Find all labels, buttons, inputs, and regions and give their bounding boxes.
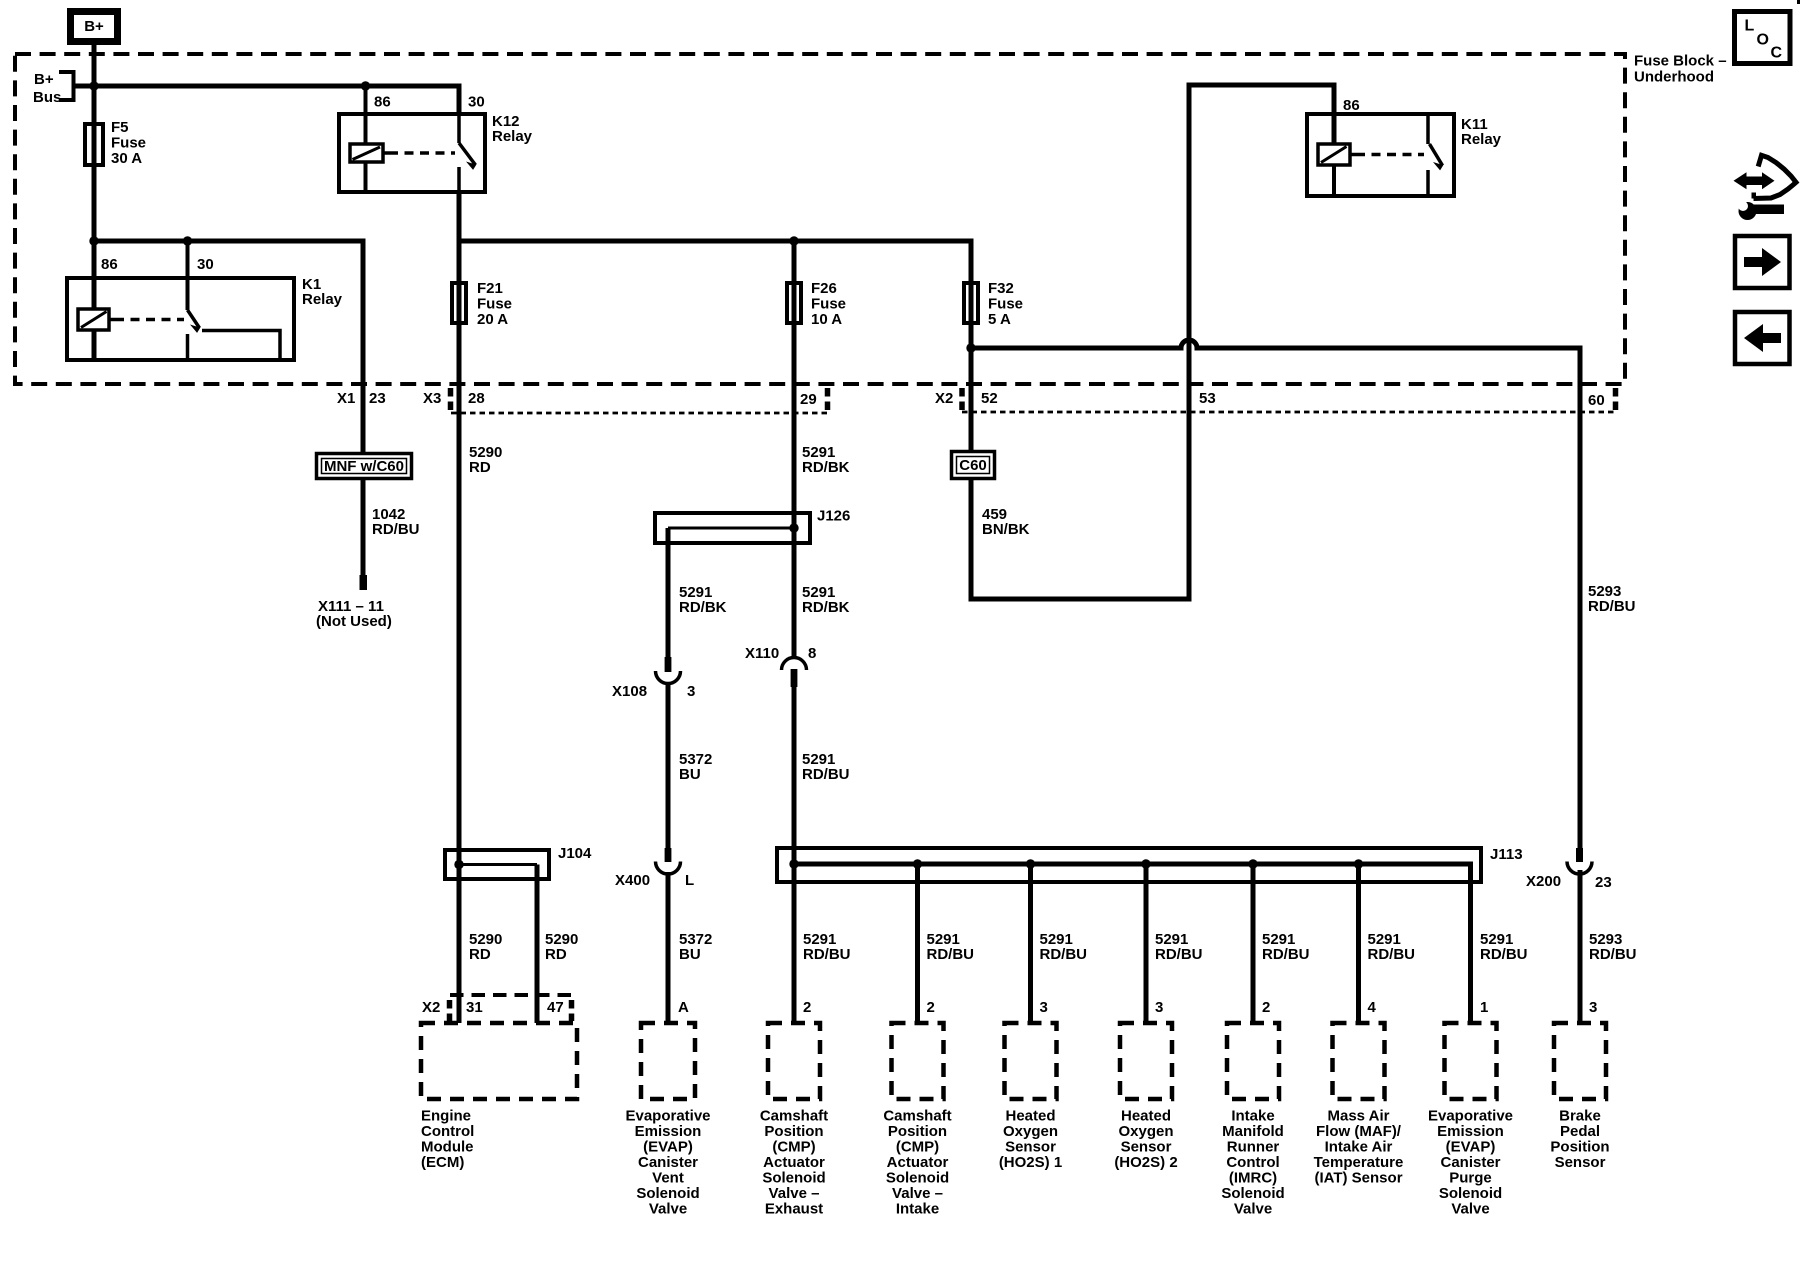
svg-text:F5: F5 [111,119,129,136]
inline connector X200 pin and cup [1567,848,1592,874]
svg-text:86: 86 [374,94,391,111]
svg-text:Solenoid: Solenoid [762,1170,825,1187]
node junction dot (94,241) [89,236,98,245]
label Fuse Block - Underhood [1634,53,1727,86]
relay K12 coil [350,144,389,162]
svg-text:Temperature: Temperature [1314,1154,1404,1171]
svg-text:Sensor: Sensor [1555,1154,1606,1171]
label K12 Relay [492,113,533,145]
inline connector X110 cap and pin [782,658,807,687]
icon pan/swap tool with wrench [1734,155,1797,220]
label connector X1 pin 23 [337,390,386,407]
svg-text:Emission: Emission [635,1123,702,1140]
wire K12 pin30 drop from box bottom to right bus y241 [457,192,462,241]
splice J126 box [655,513,810,543]
corner mark top right [1797,0,1800,4]
svg-text:O: O [1757,32,1769,49]
svg-text:RD/BU: RD/BU [1368,946,1416,963]
svg-text:Intake Air: Intake Air [1325,1139,1393,1156]
relay K1 box [67,278,294,360]
svg-text:Solenoid: Solenoid [636,1185,699,1202]
svg-text:Camshaft: Camshaft [760,1108,828,1125]
label EVAP vent pin A [678,999,689,1016]
relay K11 box [1307,114,1454,196]
wire circuit 459 BN/BK from F32 down through C60 right and up to K11 pin86 [971,85,1334,599]
svg-text:30: 30 [468,94,485,111]
svg-text:Sensor: Sensor [1005,1139,1056,1156]
wire J113 drop to CMP intake x917.5 [913,859,922,1023]
svg-text:Module: Module [421,1139,474,1156]
svg-text:86: 86 [1343,97,1360,114]
svg-text:X110: X110 [745,645,779,662]
svg-text:Heated: Heated [1121,1108,1171,1125]
svg-text:RD/BU: RD/BU [802,766,850,783]
svg-text:Flow (MAF)/: Flow (MAF)/ [1316,1123,1402,1140]
label K12 pin 86 [374,94,391,111]
svg-text:8: 8 [808,645,816,662]
label CMP exhaust pin 2 [803,999,811,1016]
component box HO2S 2 [1120,1023,1172,1099]
svg-text:Mass Air: Mass Air [1328,1108,1390,1125]
label Engine Control Module (ECM) [421,1108,474,1172]
label circuit 5293 RD/BU lower [1589,931,1637,963]
svg-text:Underhood: Underhood [1634,69,1714,86]
wire left bus y241 from F5 branch to X1 drop x363 [94,241,363,452]
svg-text:Valve –: Valve – [769,1185,820,1202]
svg-text:28: 28 [468,390,485,407]
svg-text:Valve: Valve [1234,1201,1272,1218]
wire circuit 5372 BU x668 from X108 to X400 [666,682,671,852]
terminal X111-11 stub [360,575,368,590]
svg-text:X3: X3 [423,390,441,407]
label circuit 5291 RD/BK right of J126 [802,584,850,616]
label MAF pin 4 [1368,999,1377,1016]
label splice J104 [558,845,592,862]
svg-text:F32: F32 [988,280,1014,297]
svg-text:B+: B+ [34,71,54,88]
svg-text:31: 31 [466,999,483,1016]
label circuit 5290 RD upper [469,444,502,476]
svg-text:5 A: 5 A [988,311,1011,328]
wire circuit 5372 BU x668 from X400 to EVAP vent valve [666,872,671,1023]
svg-text:RD: RD [545,946,567,963]
svg-text:52: 52 [981,390,998,407]
svg-text:Engine: Engine [421,1108,471,1125]
svg-text:(HO2S) 1: (HO2S) 1 [999,1154,1062,1171]
svg-text:L: L [1745,18,1755,35]
wire circuit 5291 RD/BU x794 from X110 pin to J113 and CMP exhaust [792,684,797,1023]
wire circuit 5293 y348 from F32 junction hopping over x1189 then down x1580 to X200 [971,340,1580,848]
component box CMP actuator solenoid valve exhaust [768,1023,820,1099]
label circuit 5293 RD/BU upper [1588,583,1636,615]
node J113 dot (794,864) [789,859,798,868]
label splice J126 [817,508,850,525]
connector X3 row thin dashed line [451,412,827,415]
label HO2S 1 [999,1108,1062,1172]
svg-text:3: 3 [1589,999,1597,1016]
label circuit 5291 RD/BK upper [802,444,850,476]
label K12 pin 30 [468,94,485,111]
svg-text:L: L [685,872,694,889]
svg-text:X1: X1 [337,390,355,407]
svg-text:1: 1 [1480,999,1488,1016]
relay K11 coil-switch dashed link [1356,153,1424,157]
label fuse F26 [811,280,846,328]
label connector X110 pin 8 [745,645,816,662]
wire K1 pin30 drop x187.5 [186,241,190,310]
label splice J113 [1490,846,1523,863]
svg-text:20 A: 20 A [477,311,508,328]
wire K11 coil lower stub x1334 [1332,162,1336,196]
label B+ terminal [84,18,104,35]
label brake pedal position sensor [1550,1108,1609,1172]
svg-text:Fuse: Fuse [811,296,846,313]
label K1 pin 86 [101,256,118,273]
splice J104 inner bus and junction dot [454,860,537,869]
svg-text:30 A: 30 A [111,150,142,167]
svg-text:Solenoid: Solenoid [1221,1185,1284,1202]
label MAF/IAT sensor [1314,1108,1404,1187]
relay K11 switch internals and blade [1428,114,1443,196]
connector X3 row separator dashes left [448,388,454,411]
svg-text:Control: Control [1226,1154,1279,1171]
component box MAF/IAT sensor [1333,1023,1385,1099]
svg-text:(EVAP): (EVAP) [1446,1139,1496,1156]
svg-text:(CMP): (CMP) [896,1139,939,1156]
svg-text:MNF w/C60: MNF w/C60 [324,458,404,475]
svg-text:Fuse Block –: Fuse Block – [1634,53,1727,70]
fuse block underhood dashed border [15,54,1625,384]
splice J104 box [445,850,549,879]
connector X2 row separator dashes left [959,388,965,411]
label CMP actuator solenoid valve intake [883,1108,951,1218]
svg-text:J126: J126 [817,508,850,525]
label CMP actuator solenoid valve exhaust [760,1108,828,1218]
svg-text:Position: Position [764,1123,823,1140]
label K11 pin 86 [1343,97,1360,114]
label C60 [959,457,987,474]
label fuse F21 [477,280,512,328]
label circuit 5291 RD/BU to HO2S2 [1155,931,1203,963]
svg-text:RD/BU: RD/BU [1262,946,1310,963]
node junction dot below F32 (971,348) [966,343,975,352]
svg-text:Control: Control [421,1123,474,1140]
label circuit 459 BN/BK [982,506,1030,538]
svg-text:Intake: Intake [1231,1108,1274,1125]
svg-text:Evaporative: Evaporative [625,1108,710,1125]
svg-text:Exhaust: Exhaust [765,1201,823,1218]
connector C60 box [952,452,995,479]
svg-text:Pedal: Pedal [1560,1123,1600,1140]
svg-text:3: 3 [1040,999,1048,1016]
label HO2S2 pin 3 [1155,999,1163,1016]
label fuse F32 [988,280,1023,328]
B+ terminal box [71,12,118,42]
svg-text:BN/BK: BN/BK [982,521,1030,538]
label HO2S1 pin 3 [1040,999,1048,1016]
relay K12 box [339,114,485,192]
label circuit 5291 RD/BU to EVAP purge [1480,931,1528,963]
icon forward arrow box [1735,236,1790,288]
relay K12 coil-switch dashed link [389,151,455,155]
wire J104 output 5290 RD x537 to ECM pin47 [535,865,540,1024]
label K1 pin 30 [197,256,214,273]
svg-text:Canister: Canister [638,1154,698,1171]
svg-text:RD/BK: RD/BK [679,599,727,616]
relay K1 switch blade and contact [188,310,281,358]
label circuit 5291 RD/BU to CMP exhaust [803,931,851,963]
component box IMRC solenoid valve [1227,1023,1279,1099]
svg-text:Runner: Runner [1227,1139,1280,1156]
label EVAP canister purge solenoid valve [1428,1108,1513,1218]
svg-text:RD/BU: RD/BU [1040,946,1088,963]
label circuit 5291 RD/BU to IMRC [1262,931,1310,963]
label circuit 5290 RD to ECM 31 [469,931,502,963]
svg-text:10 A: 10 A [811,311,842,328]
svg-text:Canister: Canister [1440,1154,1500,1171]
svg-text:F26: F26 [811,280,837,297]
wire J113 drop to MAF/IAT x1358.5 [1354,859,1363,1023]
svg-text:RD/BU: RD/BU [372,521,420,538]
svg-text:2: 2 [927,999,935,1016]
svg-text:A: A [678,999,689,1016]
svg-text:Fuse: Fuse [477,296,512,313]
svg-text:Sensor: Sensor [1121,1139,1172,1156]
svg-text:Position: Position [888,1123,947,1140]
svg-text:BU: BU [679,946,701,963]
svg-text:Oxygen: Oxygen [1003,1123,1058,1140]
svg-text:Bus: Bus [33,89,61,106]
label connector X2 pins 52 53 60 [935,390,1605,409]
svg-text:Purge: Purge [1449,1170,1492,1187]
wire circuit 5293 RD/BU x1580 from X200 to brake pedal position sensor [1578,870,1583,1023]
svg-text:(IAT) Sensor: (IAT) Sensor [1314,1170,1402,1187]
wire F21 branch x459 from right bus down through F21, J104 to ECM pin31 [457,241,462,1023]
component box EVAP canister vent solenoid valve [641,1023,695,1099]
relay K1 coil-switch dashed link [115,318,184,322]
connector X3 row separator dashes right [825,388,831,411]
svg-text:Fuse: Fuse [988,296,1023,313]
wire J113 drop to IMRC x1253 [1248,859,1257,1023]
svg-text:Position: Position [1550,1139,1609,1156]
inline connector X108 pin and cup [656,657,681,684]
splice J126 inner bus and junction dot [668,523,799,532]
splice J113 inner bus with corner drop to EVAP purge [790,864,1471,1023]
label K1 Relay [302,276,343,308]
wire right bus y241 from K12 pin30 to F32 branch x971 [459,241,971,348]
svg-text:47: 47 [547,999,564,1016]
icon LOC box top right [1735,12,1791,64]
svg-text:86: 86 [101,256,118,273]
svg-text:Relay: Relay [302,291,343,308]
svg-text:Valve: Valve [649,1201,687,1218]
svg-text:X2: X2 [935,390,953,407]
relay K12 switch pin30 internals and blade [459,114,476,192]
component box EVAP canister purge solenoid valve [1445,1023,1497,1099]
label circuit 1042 RD/BU [372,506,420,538]
label circuit 5291 RD/BK left of J126 [679,584,727,616]
node bus junction dot at K12 pin86 (365.5,86) [361,81,370,90]
node B+ bus junction dot at (94,86) [89,81,98,90]
svg-text:60: 60 [1588,392,1605,409]
svg-text:23: 23 [369,390,386,407]
svg-text:RD/BU: RD/BU [1589,946,1637,963]
node junction dot K1 pin30 (187.5,241) [183,236,192,245]
svg-text:(CMP): (CMP) [772,1139,815,1156]
component box Engine Control Module (ECM) [421,1023,577,1099]
svg-text:Solenoid: Solenoid [1439,1185,1502,1202]
label HO2S 2 [1114,1108,1177,1172]
label EVAP canister vent solenoid valve [625,1108,710,1218]
ECM connector X2 row dashed notch [450,995,574,1021]
connector X2 row separator dashes right [1613,388,1619,411]
component box brake pedal position sensor [1554,1023,1606,1099]
label connector X108 pin 3 [612,683,695,700]
label fuse F5 [111,119,146,167]
svg-text:BU: BU [679,766,701,783]
label CMP intake pin 2 [927,999,935,1016]
svg-text:Actuator: Actuator [763,1154,825,1171]
label connector X3 pins 28 29 [423,390,817,408]
svg-text:Valve: Valve [1451,1201,1489,1218]
wire circuit 1042 RD/BU from MNF w/C60 box to X111 stub [361,480,366,578]
svg-text:Valve –: Valve – [892,1185,943,1202]
svg-text:23: 23 [1595,874,1612,891]
label connector X400 pin L [615,872,694,889]
svg-text:Heated: Heated [1005,1108,1055,1125]
wire J126 branch 5291 RD/BK x668 down to X108 [666,528,671,660]
svg-text:(Not Used): (Not Used) [316,613,392,630]
node junction dot F26 branch (794,241) [789,236,798,245]
component box HO2S 1 [1005,1023,1057,1099]
wire K12 pin86 coil wire x365.5 [364,86,368,192]
svg-text:RD/BU: RD/BU [803,946,851,963]
component box CMP actuator solenoid valve intake [892,1023,944,1099]
connector X2 row thin dashed line [962,411,1616,414]
svg-text:RD/BU: RD/BU [1480,946,1528,963]
svg-text:RD/BU: RD/BU [927,946,975,963]
fuse F32 5A body [964,283,978,323]
svg-text:4: 4 [1368,999,1377,1016]
svg-text:Brake: Brake [1559,1108,1601,1125]
label circuit 5290 RD to ECM 47 [545,931,578,963]
svg-text:29: 29 [800,391,817,408]
svg-text:53: 53 [1199,390,1216,407]
svg-text:(EVAP): (EVAP) [643,1139,693,1156]
svg-text:J104: J104 [558,845,592,862]
fuse F21 20A body [452,283,466,323]
fuse F5 30A body [85,124,103,165]
label B+ Bus [33,71,61,106]
wire B+ feed vertical x94 from B+ box through F5 down to K1 coil area [92,44,97,358]
svg-text:Fuse: Fuse [111,135,146,152]
svg-text:(ECM): (ECM) [421,1154,464,1171]
svg-text:Emission: Emission [1437,1123,1504,1140]
label K11 Relay [1461,116,1502,148]
svg-text:Relay: Relay [1461,131,1502,148]
label X111 - 11 (Not Used) [316,598,392,630]
svg-text:X200: X200 [1526,873,1561,890]
wire B+ bus horizontal y86 from bracket to K12 pin30 corner [75,86,459,114]
label brake sensor pin 3 [1589,999,1597,1016]
wire J113 drop to HO2S1 x1030.5 [1026,859,1035,1023]
svg-text:Evaporative: Evaporative [1428,1108,1513,1125]
label circuit 5291 RD/BU mid [802,751,850,783]
B+ bus bracket [59,72,94,100]
svg-text:B+: B+ [84,18,104,35]
wire F26 branch x794 from right bus down through F26, J126 to X110 [792,241,797,659]
svg-text:30: 30 [197,256,214,273]
svg-text:Relay: Relay [492,128,533,145]
svg-text:2: 2 [1262,999,1270,1016]
svg-text:X400: X400 [615,872,650,889]
svg-text:Vent: Vent [652,1170,684,1187]
svg-text:RD/BU: RD/BU [1155,946,1203,963]
svg-text:Camshaft: Camshaft [883,1108,951,1125]
svg-text:Manifold: Manifold [1222,1123,1284,1140]
label IMRC solenoid valve [1221,1108,1284,1218]
svg-text:2: 2 [803,999,811,1016]
inline connector X400 pin and cup [656,848,681,874]
svg-text:(HO2S) 2: (HO2S) 2 [1114,1154,1177,1171]
wire J113 drop to HO2S2 x1146 [1141,859,1150,1023]
svg-text:3: 3 [687,683,695,700]
svg-text:C60: C60 [959,457,987,474]
icon back arrow box [1735,312,1790,364]
relay K11 coil [1318,144,1356,165]
fuse F26 10A body [787,283,801,323]
svg-text:3: 3 [1155,999,1163,1016]
svg-text:Oxygen: Oxygen [1118,1123,1173,1140]
svg-text:RD: RD [469,946,491,963]
label circuit 5291 RD/BU to MAF [1368,931,1416,963]
splice J113 box [777,848,1481,882]
connector MNF w/C60 box [317,454,412,479]
label circuit 5372 BU lower [679,931,712,963]
svg-text:RD/BK: RD/BK [802,599,850,616]
svg-text:RD/BU: RD/BU [1588,598,1636,615]
label circuit 5291 RD/BU to HO2S1 [1040,931,1088,963]
relay K1 coil [78,309,115,330]
svg-text:Intake: Intake [896,1201,939,1218]
svg-text:RD/BK: RD/BK [802,459,850,476]
label IMRC pin 2 [1262,999,1270,1016]
svg-text:X2: X2 [422,999,440,1016]
svg-text:(IMRC): (IMRC) [1229,1170,1277,1187]
svg-text:J113: J113 [1490,846,1523,863]
svg-text:Actuator: Actuator [887,1154,949,1171]
svg-text:C: C [1771,45,1783,62]
svg-text:RD: RD [469,459,491,476]
label MNF w/C60 [324,458,404,475]
svg-text:Solenoid: Solenoid [886,1170,949,1187]
label circuit 5372 BU mid [679,751,712,783]
label circuit 5291 RD/BU to CMP intake [927,931,975,963]
label EVAP purge pin 1 [1480,999,1488,1016]
label ECM connector X2 pins 31 47 [422,999,564,1016]
svg-text:X108: X108 [612,683,647,700]
label connector X200 pin 23 [1526,873,1612,891]
svg-text:F21: F21 [477,280,503,297]
